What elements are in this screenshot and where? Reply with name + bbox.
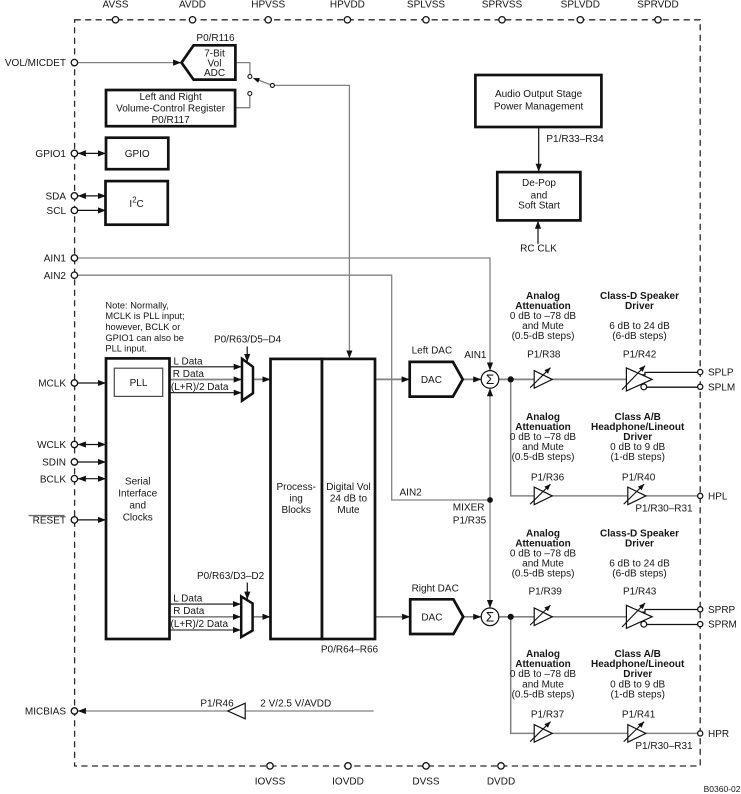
svg-text:P1/R46: P1/R46: [200, 699, 234, 710]
wire mux1 control P0/R63/D5-D4: [246, 347, 248, 362]
svg-text:(0.5-dB steps): (0.5-dB steps): [512, 452, 575, 463]
wire mixer interconnect lower (arrow into right mixer top): [489, 500, 491, 608]
svg-text:HPL: HPL: [708, 492, 728, 503]
svg-text:(0.5-dB steps): (0.5-dB steps): [512, 331, 575, 342]
label RC CLK: [520, 243, 557, 254]
svg-text:P0/R117: P0/R117: [152, 115, 191, 126]
wire mixer interconnect upper (arrow into left mixer bottom): [489, 388, 491, 500]
svg-text:P1/R38: P1/R38: [527, 349, 561, 360]
svg-text:Audio Output Stage: Audio Output Stage: [495, 89, 583, 100]
svg-text:SDA: SDA: [45, 192, 66, 203]
header class A/B headphone driver (group 4): [591, 649, 685, 700]
label P1/R30&#8211;R31 (right): [635, 741, 693, 752]
svg-text:De-Pop: De-Pop: [522, 178, 556, 189]
svg-text:IOVDD: IOVDD: [332, 776, 364, 787]
svg-text:RESET: RESET: [33, 516, 66, 527]
svg-text:P0/R63/D5–D4: P0/R63/D5–D4: [214, 335, 282, 346]
figure number B0360-02: [704, 784, 741, 794]
svg-text:Power Management: Power Management: [494, 102, 584, 113]
svg-text:L Data: L Data: [174, 356, 204, 367]
svg-text:Volume-Control Register: Volume-Control Register: [116, 104, 226, 115]
label P1/R46: [200, 699, 234, 710]
wire mux1 output to Processing Blocks: [254, 378, 271, 380]
svg-text:Clocks: Clocks: [123, 513, 153, 524]
svg-text:(6-dB steps): (6-dB steps): [612, 331, 666, 342]
header class-D speaker driver (group 3): [600, 528, 679, 579]
svg-text:P1/R33–R34: P1/R33–R34: [546, 134, 604, 145]
wire reference buffer to MICBIAS pin: [78, 710, 228, 712]
node junction AIN2 join: [487, 497, 493, 503]
label AIN1: [464, 350, 487, 361]
svg-text:P1/R37: P1/R37: [531, 710, 565, 721]
digital volume block: [322, 359, 375, 639]
svg-text:(L+R)/2 Data: (L+R)/2 Data: [171, 382, 229, 393]
label Left DAC: [412, 345, 453, 356]
svg-text:DVDD: DVDD: [487, 776, 515, 787]
label MIXER P1/R35: [453, 503, 487, 527]
svg-text:Note: Normally,: Note: Normally,: [105, 300, 168, 310]
svg-text:P1/R42: P1/R42: [623, 349, 657, 360]
note text: [105, 300, 184, 353]
labels L/R data (right mux): [171, 594, 229, 631]
svg-text:MICBIAS: MICBIAS: [25, 707, 66, 718]
svg-text:AIN2: AIN2: [400, 487, 423, 498]
header analog attenuation (group 3): [510, 528, 576, 579]
wire AIN2: [78, 275, 487, 500]
svg-text:PLL input.: PLL input.: [105, 344, 147, 354]
svg-text:SPLVSS: SPLVSS: [407, 0, 445, 11]
svg-text:P0/R116: P0/R116: [196, 33, 235, 44]
wire BCLK bidirectional: [78, 478, 106, 480]
label P1/R40: [622, 472, 656, 483]
wire SPRP output: [641, 610, 697, 613]
wire SPLM output: [647, 386, 698, 388]
wire SPRM output: [647, 624, 698, 626]
svg-text:BCLK: BCLK: [40, 474, 66, 485]
wire ADC output to switch throw 1: [235, 63, 250, 75]
pin SPLVSS: [407, 0, 445, 23]
svg-text:Soft Start: Soft Start: [518, 201, 560, 212]
label P0/R64&#8211;R66: [321, 645, 379, 656]
wire HPL branch: [511, 382, 698, 496]
label P1/R33&#8211;R34: [546, 134, 604, 145]
header class-D speaker driver (group 1): [600, 291, 679, 342]
pin VOL/MICDET: [5, 58, 78, 69]
svg-text:and: and: [129, 500, 146, 511]
inversion bubble SPLM: [641, 384, 647, 390]
svg-text:(0.5-dB steps): (0.5-dB steps): [512, 569, 575, 580]
wire R Data (right mux): [170, 616, 241, 618]
pin SPRM: [698, 620, 737, 631]
serial interface and clocks block: [106, 358, 170, 639]
svg-text:AIN2: AIN2: [44, 271, 67, 282]
svg-text:P0/R64–R66: P0/R64–R66: [321, 645, 379, 656]
svg-text:P1/R35: P1/R35: [453, 515, 487, 526]
svg-text:Process-: Process-: [276, 482, 315, 493]
pin SDA: [45, 192, 77, 203]
svg-text:SPRVSS: SPRVSS: [482, 0, 523, 11]
svg-text:AVDD: AVDD: [179, 0, 206, 11]
svg-text:VOL/MICDET: VOL/MICDET: [5, 58, 66, 69]
svg-text:SPLVDD: SPLVDD: [561, 0, 600, 11]
svg-text:Mute: Mute: [337, 505, 360, 516]
pin SDIN: [42, 458, 78, 469]
svg-text:AIN1: AIN1: [44, 254, 67, 265]
wire SDIN: [78, 461, 106, 463]
headphone driver amp P1/R41: [624, 722, 646, 743]
label P0/R63/D5&#8211;D4: [214, 335, 282, 346]
I2C block: [106, 181, 168, 225]
wire RC CLK into De-Pop: [537, 221, 539, 244]
wire mux2 output to Processing Blocks: [253, 616, 270, 618]
pin AIN2: [44, 271, 78, 282]
class-D speaker driver P1/R43: [622, 603, 652, 628]
pin MICBIAS: [25, 707, 78, 718]
label P0/R116: [196, 33, 235, 44]
pin SCL: [47, 206, 78, 217]
svg-text:HPR: HPR: [708, 729, 729, 740]
wire L Data (right mux): [170, 603, 241, 605]
header analog attenuation (group 2): [510, 412, 576, 463]
pin GPIO1: [35, 149, 77, 160]
left DAC block: [410, 362, 463, 397]
svg-text:24 dB to: 24 dB to: [330, 494, 368, 505]
wire switch pole to Digital Vol block: [274, 85, 349, 358]
svg-text:P1/R39: P1/R39: [529, 587, 563, 598]
svg-text:SDIN: SDIN: [42, 458, 66, 469]
pin IOVDD: [332, 763, 364, 788]
reference buffer P1/R46 (MICBIAS): [228, 703, 245, 719]
wire L Data (left mux): [170, 366, 242, 368]
svg-text:DAC: DAC: [421, 612, 442, 623]
pin BCLK: [40, 474, 78, 485]
label P1/R38: [527, 349, 561, 360]
attenuator amp P1/R38: [530, 368, 552, 389]
svg-text:WCLK: WCLK: [37, 440, 66, 451]
svg-text:P0/R63/D3–D2: P0/R63/D3–D2: [197, 571, 265, 582]
svg-text:RC CLK: RC CLK: [520, 243, 557, 254]
svg-text:Digital Vol: Digital Vol: [326, 482, 370, 493]
pin SPLM: [698, 382, 736, 393]
right DAC block: [410, 599, 463, 634]
wire (L+R)/2 Data (right mux): [170, 629, 241, 631]
pin WCLK: [37, 440, 78, 451]
mixer U3 (right channel summing node): [481, 608, 499, 626]
label 2 V/2.5 V/AVDD: [260, 699, 331, 710]
wire R Data (left mux): [170, 379, 242, 381]
svg-text:IOVSS: IOVSS: [255, 776, 286, 787]
wire volume register to switch throw 2: [235, 96, 250, 108]
svg-text:HPVDD: HPVDD: [330, 0, 365, 11]
svg-text:2 V/2.5 V/AVDD: 2 V/2.5 V/AVDD: [260, 699, 331, 710]
pin HPR: [698, 729, 730, 740]
svg-text:PLL: PLL: [130, 378, 148, 389]
inversion bubble SPRM: [641, 621, 647, 627]
pin HPVSS: [251, 0, 285, 23]
mux M1 (left channel data select): [242, 359, 253, 401]
switch S1 throw contact (register): [248, 92, 252, 96]
pin MCLK: [38, 379, 77, 390]
svg-text:Left and Right: Left and Right: [139, 92, 201, 103]
svg-text:Σ: Σ: [486, 609, 494, 624]
headphone driver amp P1/R40: [624, 484, 646, 505]
attenuator amp P1/R36: [530, 484, 552, 505]
node junction left mixer output: [508, 376, 514, 382]
svg-text:P1/R43: P1/R43: [623, 587, 657, 598]
wire AIN1 to left mixer: [78, 258, 490, 370]
pin RESET: [29, 516, 78, 527]
wire right mixer output row (to Class-D driver): [499, 616, 627, 618]
wire left mixer output row (to Class-D driver): [499, 378, 627, 380]
label P1/R30&#8211;R31 (left): [635, 504, 693, 515]
svg-text:Interface: Interface: [118, 488, 157, 499]
label P1/R41: [622, 710, 656, 721]
svg-text:Driver: Driver: [625, 538, 654, 549]
svg-text:DVSS: DVSS: [412, 776, 440, 787]
wire Digital Vol to Left DAC: [375, 378, 410, 380]
class-D speaker driver P1/R42: [622, 366, 652, 391]
pin AIN1: [44, 254, 78, 265]
svg-text:(L+R)/2 Data: (L+R)/2 Data: [171, 619, 229, 630]
svg-text:P1/R40: P1/R40: [622, 472, 656, 483]
ADC block U1 (7-Bit Vol ADC pentagon): [182, 45, 236, 79]
pin SPLP: [698, 368, 734, 379]
svg-text:(1-dB steps): (1-dB steps): [610, 689, 664, 700]
svg-text:Right DAC: Right DAC: [412, 584, 459, 595]
label P1/R37: [531, 710, 565, 721]
label P0/R63/D3&#8211;D2: [197, 571, 265, 582]
wire MICBIAS from reference buffer: [245, 710, 373, 712]
wire Digital Vol to Right DAC: [375, 616, 410, 618]
attenuator amp P1/R37: [530, 722, 552, 743]
wire SDA bidirectional: [78, 195, 106, 197]
svg-text:P1/R36: P1/R36: [531, 472, 565, 483]
pin IOVSS: [255, 763, 286, 788]
svg-text:L Data: L Data: [173, 594, 203, 605]
svg-text:R Data: R Data: [173, 369, 205, 380]
svg-text:R Data: R Data: [173, 606, 205, 617]
wire SCL: [78, 209, 106, 211]
node junction right mixer output: [508, 614, 514, 620]
switch S1 throw contact (ADC): [248, 75, 252, 79]
label Right DAC: [412, 584, 459, 595]
svg-text:P1/R41: P1/R41: [622, 710, 656, 721]
svg-text:however, BCLK or: however, BCLK or: [105, 322, 180, 332]
chip boundary (dashed): [75, 20, 701, 766]
wire mux2 control P0/R63/D3-D2: [246, 583, 248, 600]
svg-text:GPIO1: GPIO1: [35, 149, 66, 160]
pin HPVDD: [330, 0, 365, 23]
wire RESET: [78, 519, 106, 521]
svg-text:(6-dB steps): (6-dB steps): [612, 569, 666, 580]
pin AVSS: [103, 0, 129, 23]
svg-text:Σ: Σ: [486, 372, 494, 387]
header analog attenuation (group 1): [510, 291, 576, 342]
svg-text:Serial: Serial: [125, 476, 151, 487]
wire HPR branch: [511, 619, 698, 734]
svg-text:MIXER: MIXER: [453, 503, 485, 514]
pin SPRVSS: [482, 0, 523, 23]
pin SPRVDD: [637, 0, 679, 23]
svg-text:MCLK: MCLK: [38, 379, 66, 390]
svg-text:AIN1: AIN1: [464, 350, 487, 361]
volume-control register block: [106, 90, 235, 126]
switch arm wire: [253, 78, 271, 85]
labels L/R data (left mux): [171, 356, 229, 393]
header analog attenuation (group 4): [510, 649, 576, 700]
pin DVSS: [412, 763, 440, 788]
svg-text:SPRP: SPRP: [708, 605, 736, 616]
svg-text:B0360-02: B0360-02: [704, 784, 741, 794]
svg-text:GPIO: GPIO: [125, 149, 150, 160]
pin HPL: [698, 492, 728, 503]
switch S1 pole contact: [270, 83, 274, 87]
attenuator amp P1/R39: [530, 605, 552, 626]
pin DVDD: [487, 763, 515, 788]
svg-text:SPLM: SPLM: [708, 382, 735, 393]
wire (L+R)/2 Data (left mux): [170, 392, 242, 394]
svg-text:Left DAC: Left DAC: [412, 345, 453, 356]
svg-text:(1-dB steps): (1-dB steps): [610, 452, 664, 463]
svg-text:Blocks: Blocks: [281, 505, 310, 516]
label P1/R39: [529, 587, 563, 598]
wire power management to de-pop P1/R33-R34: [538, 128, 540, 172]
svg-text:HPVSS: HPVSS: [251, 0, 285, 11]
wire VOL/MICDET to ADC: [78, 62, 181, 64]
de-pop and soft start block: [497, 172, 580, 220]
svg-text:SPLP: SPLP: [708, 368, 734, 379]
wire SPLP output: [641, 372, 697, 375]
pin SPLVDD: [561, 0, 600, 23]
label AIN2: [400, 487, 423, 498]
pin SPRP: [698, 605, 736, 616]
svg-text:MCLK is PLL input;: MCLK is PLL input;: [105, 311, 184, 321]
svg-text:SPRVDD: SPRVDD: [637, 0, 679, 11]
mixer U2 (left channel summing node): [481, 371, 499, 389]
GPIO block: [106, 138, 168, 170]
svg-text:ing: ing: [290, 494, 303, 505]
mux M2 (right channel data select): [241, 596, 252, 637]
svg-text:SPRM: SPRM: [708, 620, 737, 631]
label P1/R42: [623, 349, 657, 360]
svg-text:GPIO1 can also be: GPIO1 can also be: [105, 333, 184, 343]
svg-text:DAC: DAC: [421, 375, 442, 386]
wire Right DAC to right mixer: [463, 616, 481, 618]
wire Left DAC to left mixer: [463, 378, 481, 380]
label P1/R43: [623, 587, 657, 598]
header class A/B headphone driver (group 2): [591, 412, 685, 463]
svg-text:P1/R30–R31: P1/R30–R31: [635, 741, 693, 752]
svg-text:(0.5-dB steps): (0.5-dB steps): [512, 689, 575, 700]
wire WCLK bidirectional: [78, 444, 106, 446]
svg-text:SCL: SCL: [47, 206, 67, 217]
label P1/R36: [531, 472, 565, 483]
svg-text:P1/R30–R31: P1/R30–R31: [635, 504, 693, 515]
svg-text:Driver: Driver: [625, 301, 654, 312]
wire MCLK: [78, 382, 106, 384]
wire GPIO1 bidirectional: [78, 152, 106, 154]
svg-text:ADC: ADC: [204, 68, 225, 79]
processing blocks block: [271, 359, 323, 639]
svg-text:AVSS: AVSS: [103, 0, 129, 11]
PLL block: [114, 368, 162, 396]
pin AVDD: [179, 0, 206, 23]
audio output stage power management block: [475, 75, 601, 127]
